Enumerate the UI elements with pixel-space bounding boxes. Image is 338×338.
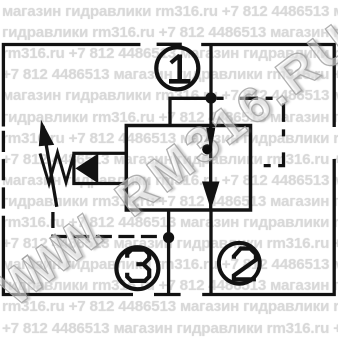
ball poppet: [202, 144, 212, 154]
port 1 tangent mark: [157, 43, 182, 46]
adjustment arrowhead: [39, 120, 54, 147]
main valve box: [126, 126, 250, 211]
port 1 circle: [156, 47, 198, 89]
wire port1 riser: [209, 45, 212, 126]
digit 1: [171, 55, 180, 62]
port 3 circle: [116, 247, 158, 289]
enclosure top-right border + right border upper: [201, 45, 334, 128]
adjustment arrow shaft: [43, 126, 57, 207]
arrowhead upper reinforced: [206, 128, 215, 153]
enclosure top+left solid border: [3, 45, 140, 127]
watermark tiled rows: [2, 4, 338, 19]
pilot drain dashed line to port 3: [53, 212, 163, 237]
digit 3: [127, 250, 149, 281]
pilot triangle: [75, 154, 98, 184]
port 2 circle: [219, 243, 260, 284]
spring: [40, 153, 74, 184]
node junction dot top: [205, 92, 216, 103]
digit 2: [234, 249, 256, 280]
enclosure left bottom + bottom-left border: [3, 216, 133, 295]
port 3 tangent mark: [154, 293, 181, 296]
ball poppet reinforced: [202, 144, 212, 154]
pilot line A dashed (right): [217, 98, 284, 165]
wire flow path (reinforced over watermark): [209, 126, 212, 158]
node junction dot port3: [163, 232, 174, 243]
enclosure right border lower + bottom-right border: [202, 159, 334, 295]
wire flow path inside box: [209, 126, 212, 211]
pilot box (spring chamber): [74, 153, 126, 183]
enclosure left border dashed middle: [2, 128, 5, 216]
wire port2 riser: [209, 210, 212, 295]
arrowhead upper (seat): [206, 128, 215, 153]
arrowhead lower (flow to port 2): [202, 182, 220, 210]
wire port3 riser: [167, 210, 170, 295]
wire branch to box top: [170, 98, 211, 125]
